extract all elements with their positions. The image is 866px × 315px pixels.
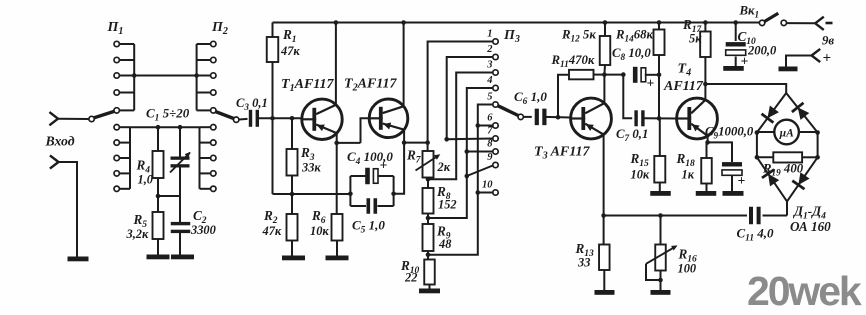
wire (C4 branch): [350, 175, 366, 177]
wire (C2 branch): [179, 196, 181, 223]
diode Д1: [767, 106, 779, 119]
wire (to battery minus): [787, 22, 816, 24]
svg-text:T1​AF117: T1​AF117: [281, 77, 335, 94]
diode Д3: [768, 174, 779, 187]
wire (C10 branch): [735, 23, 737, 42]
ground (R2): [282, 256, 305, 261]
wire (C5 branch): [350, 205, 366, 207]
svg-text:AF117: AF117: [663, 79, 704, 94]
wire (R2 branch): [291, 194, 293, 214]
input jack Вход terminal 1: [49, 112, 58, 119]
svg-text:T2​AF117: T2​AF117: [344, 77, 398, 94]
input jack Вход terminal 2: [50, 155, 59, 162]
wire (contact9): [467, 166, 493, 177]
svg-text:33: 33: [577, 256, 590, 270]
svg-text:2: 2: [486, 44, 493, 55]
wire (R2 to ground): [291, 241, 293, 256]
svg-text:10к: 10к: [310, 224, 329, 238]
wire (C4C5 box left): [349, 176, 351, 206]
switch П2 deck 2 contacts: [211, 125, 216, 130]
switch П2 deck 1 contacts: [211, 41, 216, 46]
resistor R7 (variable): [423, 151, 434, 178]
node (R17 rail): [703, 20, 708, 25]
svg-text:+: +: [823, 51, 832, 67]
wire (T1 emitter to T2 base): [361, 118, 370, 143]
svg-text:1,0: 1,0: [138, 173, 154, 187]
svg-text:7: 7: [487, 126, 493, 137]
svg-text:10к: 10к: [631, 168, 650, 182]
svg-text:1к: 1к: [682, 168, 695, 182]
node (c4/c8): [465, 149, 470, 154]
svg-text:4: 4: [486, 75, 492, 86]
capacitor C11: [749, 207, 753, 225]
node (C10 rail): [733, 20, 738, 25]
wire (rail to R1): [272, 23, 274, 38]
svg-text:152: 152: [438, 198, 457, 212]
wire (R19 left): [757, 156, 773, 158]
bridge edge upper-left: [757, 93, 786, 133]
wire (emitter bus): [604, 215, 747, 217]
node (R16 bottom): [658, 278, 663, 283]
ground (R18): [696, 191, 717, 196]
svg-text:48: 48: [438, 237, 451, 251]
node (c2/c7): [444, 137, 449, 142]
resistor R4: [153, 151, 164, 178]
resistor R16 (variable): [655, 245, 666, 271]
wire (R3 branch): [291, 118, 293, 149]
wire (R13 to ground): [603, 270, 605, 290]
battery minus terminal: [815, 17, 824, 24]
wire (collector node to C8 node): [604, 74, 623, 76]
resistor R17: [700, 32, 711, 58]
wire (R9-R10): [427, 251, 429, 260]
svg-text:6: 6: [487, 113, 493, 124]
node (C4C5 right): [391, 192, 396, 197]
capacitor C5: [367, 198, 371, 214]
wire (contact7): [447, 138, 493, 141]
wire (C9 branch): [708, 142, 732, 162]
node (c4/c9): [465, 174, 470, 179]
transistor T4: [677, 98, 718, 139]
node (C7/C8): [621, 72, 626, 77]
svg-text:ОА 160: ОА 160: [790, 219, 831, 234]
node (R14/C8): [657, 73, 662, 78]
wiper pivot П2a: [234, 117, 239, 122]
wire (R1 to base): [272, 62, 274, 118]
ground (R16): [651, 290, 671, 295]
switch П1 deck 2 contacts: [114, 125, 119, 130]
svg-text:С8​ 10,0: С8​ 10,0: [612, 46, 651, 62]
transistor T1: [302, 99, 342, 139]
wire (R18 branch): [706, 142, 708, 158]
wire (R14 branch): [658, 23, 660, 30]
resistor R5: [153, 212, 164, 239]
capacitor C7: [634, 110, 637, 126]
svg-text:+: +: [738, 173, 746, 188]
wire (R7 top): [427, 143, 429, 151]
capacitor C4: [365, 168, 370, 185]
node (T3 emitter/R13): [601, 213, 606, 218]
wire (contact1 to R7 top): [428, 42, 493, 143]
wire (C7 to T4 base): [644, 117, 676, 119]
svg-text:5: 5: [487, 92, 492, 103]
wire (R16 to ground): [660, 271, 662, 291]
node (R4/R5/C2): [156, 194, 161, 199]
svg-text:+: +: [380, 158, 388, 173]
svg-text:1: 1: [487, 29, 492, 40]
capacitor C8: [633, 67, 638, 83]
node (bridge left top): [755, 130, 760, 135]
node (R8/R9 tap): [426, 216, 431, 221]
wire (T4 collector): [704, 84, 706, 100]
wire (R12 to node): [603, 65, 606, 75]
wire (deck2 top node): [130, 126, 200, 128]
svg-text:100: 100: [678, 262, 697, 276]
svg-text:3,2к: 3,2к: [126, 227, 149, 241]
wire (П1-П2 bus link): [134, 75, 196, 77]
svg-text:С7​ 0,1: С7​ 0,1: [616, 127, 648, 143]
node (bridge left bottom): [755, 155, 760, 160]
wiper blade П3: [498, 106, 519, 116]
svg-text:T3​ AF117: T3​ AF117: [534, 145, 590, 162]
wire (T1 emitter): [337, 134, 361, 143]
wire (base node down): [272, 118, 274, 194]
svg-text:200,0: 200,0: [747, 44, 777, 58]
wire (T3 collector): [603, 75, 605, 104]
svg-text:+: +: [647, 76, 655, 91]
ground (R6): [326, 256, 349, 261]
wire (pivot to C3): [239, 118, 248, 121]
diode Д2: [798, 107, 810, 120]
node (R9/R10 tap): [426, 253, 431, 258]
node (R12 rail): [603, 20, 608, 25]
wire (battery plus): [786, 56, 812, 67]
capacitor C9: [722, 162, 742, 166]
wire (R6 branch): [336, 143, 338, 214]
wire (R15 branch): [659, 118, 661, 156]
resistor R1: [267, 37, 279, 62]
node (c5/c6): [476, 123, 481, 128]
svg-text:2к: 2к: [437, 160, 451, 174]
node (T2 collector rail): [401, 20, 406, 25]
wire (pivot to C6): [523, 116, 531, 118]
node (R2/R3 bias): [290, 192, 295, 197]
svg-text:9: 9: [487, 152, 493, 163]
wire (R17 down): [704, 57, 706, 84]
ground (C9): [723, 191, 744, 196]
node (R7 top): [425, 140, 430, 145]
resistor R2: [287, 214, 298, 241]
wiper blade П1a: [94, 111, 115, 118]
resistor R18: [701, 158, 712, 184]
node (П1 bus): [132, 73, 137, 78]
node (T3 base): [556, 115, 561, 120]
ground (R13): [595, 290, 615, 295]
wiper pivot П1a: [89, 116, 94, 121]
node (R16 tap): [658, 213, 663, 218]
transistor T3: [571, 98, 612, 139]
switch П3 contacts 1-10: [493, 39, 498, 44]
ground (R5): [147, 255, 170, 260]
wire (R6 to ground): [336, 241, 338, 256]
wire (C9 to ground): [731, 176, 733, 191]
wire (contact5 column): [428, 105, 493, 255]
node (R1/base): [270, 116, 275, 121]
svg-text:3300: 3300: [190, 223, 216, 237]
wire (contact8): [467, 151, 493, 153]
ground (R15): [650, 191, 671, 196]
wire (C11 to bridge): [763, 215, 788, 217]
wire (R14 down): [658, 55, 660, 118]
resistor R12: [600, 36, 611, 65]
label - (battery): [826, 22, 833, 25]
wire (R8-R9): [427, 214, 429, 225]
node (bridge right bottom): [815, 155, 820, 160]
node (T2 emitter): [402, 140, 407, 145]
wire (T2 collector to rail): [403, 23, 405, 107]
svg-text:22: 22: [404, 271, 417, 285]
node (bridge right top): [815, 130, 820, 135]
variable capacitor C1: [171, 157, 190, 160]
svg-text:5к: 5к: [689, 32, 702, 46]
wire (bridge bottom): [786, 201, 788, 215]
wire (R16 wiper tap): [646, 264, 661, 280]
ground (input): [68, 257, 89, 262]
resistor R11: [569, 70, 594, 80]
wire (R12 branch): [604, 23, 606, 37]
svg-text:С9​1000,0: С9​1000,0: [705, 125, 754, 141]
wire (bias bus): [273, 193, 351, 195]
bridge edge lower-left: [757, 157, 787, 201]
svg-text:R11​470к: R11​470к: [551, 53, 595, 69]
wire (contact2 down): [447, 57, 493, 139]
node (R7/R8 tap): [426, 177, 431, 182]
svg-text:Вход: Вход: [45, 134, 75, 149]
wire (base to R11): [558, 75, 569, 118]
wire (meter right): [799, 131, 818, 133]
wire (C10 to ground): [735, 57, 737, 67]
wire (T2 emitter to R7): [404, 142, 428, 144]
wire (node to C2): [158, 195, 180, 197]
wire (meter left): [757, 131, 774, 133]
node (T4 base): [657, 116, 662, 121]
wire (T4 emitter down): [707, 136, 709, 143]
wire (R4-R5): [157, 178, 159, 212]
ground (C10): [723, 66, 744, 71]
wire (R5 to ground): [157, 239, 159, 255]
wiper pivot П3: [518, 114, 523, 119]
wire (contact6): [478, 125, 493, 127]
wire (R15 to ground): [659, 183, 661, 192]
wiper blade П2a: [215, 112, 234, 119]
node (R3/base): [290, 116, 295, 121]
wire (C6 to T3 base): [545, 116, 570, 119]
wire (T1 collector to rail): [335, 23, 337, 105]
capacitor C2: [171, 222, 191, 225]
node (C1 top): [178, 125, 183, 130]
node (T4 emitter): [705, 140, 710, 145]
switch Вк1 contact B: [781, 20, 786, 25]
bridge left side: [756, 133, 758, 158]
resistor R19: [773, 152, 802, 162]
wire (R18 to ground): [706, 184, 708, 192]
wire (R17 branch): [704, 23, 706, 32]
node (T4 collector/R17): [703, 82, 708, 87]
ground (C2): [171, 255, 194, 260]
node (П2 bus): [194, 73, 199, 78]
wire (contact10): [478, 192, 493, 194]
wire (T3 emitter down): [603, 135, 605, 216]
wire (R16 branch): [660, 216, 662, 245]
svg-text:8: 8: [487, 139, 493, 150]
node (T1 collector rail): [334, 20, 339, 25]
svg-text:9в: 9в: [822, 34, 834, 48]
ground (R10): [419, 289, 440, 294]
capacitor C3: [249, 110, 252, 127]
bridge right side: [817, 133, 819, 158]
resistor R9: [423, 224, 434, 251]
wire (R13 branch): [603, 216, 605, 245]
capacitor C6: [535, 109, 539, 126]
resistor R3: [287, 149, 298, 176]
resistor R15: [654, 156, 665, 183]
wire (collector to bridge top): [705, 84, 786, 93]
svg-text:33к: 33к: [301, 161, 321, 175]
resistor R14: [654, 30, 665, 56]
wire (R11 to collector node): [594, 74, 605, 76]
node (c5/c10): [476, 190, 481, 195]
wire (C4C5 box right): [393, 176, 395, 206]
wire (C1 branch): [179, 127, 181, 157]
capacitor C10: [726, 42, 746, 46]
bridge edge upper-right: [786, 93, 817, 133]
node (R4 top): [156, 125, 161, 130]
resistor R8: [423, 188, 434, 214]
wire (T2 emitter down): [403, 130, 405, 142]
bridge edge lower-right: [787, 157, 818, 201]
wire (C8 right): [645, 74, 659, 76]
svg-text:20wek: 20wek: [747, 268, 862, 314]
wire (C3 to T1 base): [257, 117, 302, 119]
svg-text:3: 3: [486, 60, 492, 71]
wire (T2 emitter to C4C5): [394, 143, 405, 194]
meter µA: [774, 120, 799, 145]
diode Д4: [798, 172, 809, 185]
wire (contact4 down): [428, 88, 493, 218]
svg-text:10: 10: [482, 180, 493, 191]
wire (R19 right): [802, 156, 818, 158]
resistor R13: [599, 245, 610, 271]
node (C4C5 left): [348, 192, 353, 197]
svg-text:µА: µА: [778, 128, 794, 140]
top supply rail: [273, 22, 763, 24]
svg-text:С3​ 0,1: С3​ 0,1: [236, 96, 268, 112]
svg-text:R14​68к: R14​68к: [615, 28, 654, 44]
resistor R6: [332, 214, 343, 241]
wire (R7-R8): [427, 178, 429, 189]
transistor T2: [369, 99, 408, 138]
switch П1 deck 1 contacts: [114, 41, 119, 46]
wire (contact3 to R7/R8 tap): [428, 73, 493, 180]
svg-text:47к: 47к: [262, 224, 282, 238]
battery plus terminal: [812, 49, 821, 56]
wire (C7 branch): [623, 75, 632, 119]
ground (battery): [779, 67, 798, 72]
wire (R10 to ground): [429, 285, 431, 289]
switch Вк1 contact A: [759, 20, 764, 25]
svg-text:R19​ 400: R19​ 400: [762, 162, 804, 178]
node (R14 rail): [657, 20, 662, 25]
switch Вк1 blade: [764, 13, 778, 21]
node (R11/R12/collector): [602, 72, 607, 77]
wire (R4 branch): [157, 127, 159, 151]
resistor R10: [424, 260, 435, 285]
svg-text:47к: 47к: [280, 44, 300, 58]
node (T1 emitter): [334, 141, 339, 146]
